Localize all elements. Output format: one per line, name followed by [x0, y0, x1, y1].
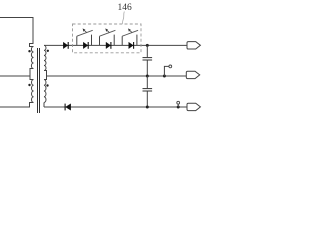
diode D1 rectifier on top rail — [63, 42, 68, 48]
switch S1 left stub — [76, 36, 78, 45]
wire: sense tap stub up and right — [164, 66, 169, 76]
junction node middle rail / C1-C2 — [146, 75, 149, 78]
switch S2 right stub — [113, 35, 115, 46]
wire: top rail (+V output) — [44, 44, 187, 46]
transformer T1 primary winding lower half — [32, 80, 34, 103]
wire: primary bottom lead to left edge — [0, 103, 34, 108]
capacitor C2 upper lead — [146, 76, 148, 88]
switch S1 actuator arrow — [85, 31, 87, 33]
phase dot secondary lower — [46, 84, 48, 86]
phase dot primary lower — [28, 84, 30, 86]
svg-text:146: 146 — [118, 3, 133, 13]
phase dot primary upper — [28, 50, 30, 52]
capacitor C2 plates — [143, 88, 153, 90]
output connector top (+V) — [187, 42, 200, 49]
junction node top rail / C1 — [146, 44, 149, 47]
transformer core line right — [39, 48, 41, 113]
wire: bottom rail (-V output) — [44, 106, 187, 108]
transformer T1 primary winding upper half — [31, 47, 33, 69]
capacitor C1 lead — [146, 45, 148, 57]
transformer core line left — [37, 48, 39, 113]
transformer T1 secondary winding lower half — [44, 80, 46, 103]
switch S1 lever — [77, 30, 93, 36]
wire: primary input from left edge, corner down to winding top — [0, 18, 34, 47]
output connector bottom (-V) — [187, 103, 200, 110]
diode D5 on bottom rail (pointing left) — [66, 104, 71, 110]
switch S3 actuator arrow — [130, 31, 132, 33]
switch S1 right stub — [91, 35, 93, 46]
switch S2 lever — [100, 30, 116, 36]
switch S3 lever — [122, 30, 138, 36]
switch S3 right stub — [136, 35, 138, 46]
diode D4 inside box unit 3 — [129, 42, 134, 48]
junction node bottom rail / C2 — [146, 106, 149, 109]
capacitor C1 lower lead — [146, 60, 148, 76]
junction node middle rail sense tap — [163, 75, 166, 78]
phase dot secondary upper — [47, 50, 49, 52]
wire: secondary bottom lead down to bottom rail — [43, 103, 45, 108]
output connector middle (common) — [186, 71, 199, 78]
terminal circle bottom tap — [177, 101, 180, 104]
switch S2 left stub — [99, 36, 101, 45]
transformer T1 secondary winding upper half — [44, 45, 46, 70]
wire: middle rail (common output) — [47, 75, 187, 77]
terminal circle middle tap — [169, 65, 172, 68]
junction node bottom rail tap — [177, 106, 180, 109]
wire: bottom tap stub — [177, 104, 179, 107]
capacitor C2 lower lead — [146, 91, 148, 107]
wire: primary center-tap jog — [30, 69, 34, 80]
wire: secondary center-tap jog — [44, 71, 47, 80]
switch S3 left stub — [121, 36, 123, 45]
dashed box 146 — [73, 24, 142, 53]
switch S2 actuator arrow — [107, 31, 109, 33]
capacitor C1 plates — [143, 57, 153, 59]
wire: primary center tap to left edge — [0, 75, 30, 77]
leader line for 146 — [122, 12, 124, 25]
diode D3 inside box unit 2 — [106, 42, 111, 48]
diode D2 inside box unit 1 — [83, 42, 88, 48]
